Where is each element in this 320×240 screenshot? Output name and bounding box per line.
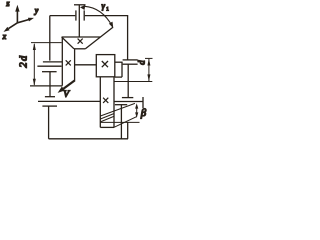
bearing B2 upper plate [123, 59, 138, 61]
support T cap bottom left [42, 105, 57, 107]
gear housing H1 right edge [74, 49, 76, 81]
bearing B4 left plate long [37, 65, 61, 67]
horizontal shaft segment right [115, 61, 123, 63]
gear housing H1 left edge [61, 37, 63, 86]
bearing B2 lower plate [123, 63, 138, 65]
rotation arc gamma1 start arrowhead [80, 5, 85, 10]
dimension 2d bottom arrow [33, 79, 36, 86]
bevel gear G1 right slant extended [85, 27, 113, 49]
axis x [4, 23, 18, 32]
bevel gear G1 bottom edge [74, 48, 85, 50]
svg-text:β: β [140, 108, 147, 119]
screw hatch line 1 extended as beta diagonal [100, 103, 134, 116]
dimension d bottom extension [114, 81, 153, 83]
shaft 1 (vertical input shaft) [78, 5, 80, 37]
dimension d line [148, 59, 150, 81]
bevel gear G1 top edge [62, 36, 101, 38]
dimension 2d top extension [31, 42, 62, 44]
bearing B1 left plate [75, 10, 77, 20]
dimension 2d line [33, 44, 35, 85]
lower shaft line left segment [38, 100, 100, 102]
bearing B4 left plate short [43, 61, 62, 63]
svg-text:d: d [136, 60, 146, 65]
bearing B3 plate [122, 97, 133, 99]
frame right edge upper [127, 16, 129, 60]
frame bottom edge [49, 138, 128, 140]
screw unit housing left edge [99, 77, 101, 128]
svg-text:γ: γ [102, 1, 106, 11]
beta reference line [101, 121, 140, 123]
gear H1 cross mark [66, 60, 71, 65]
support T leg right [120, 105, 122, 139]
gyro housing axis leg [49, 72, 51, 97]
screw unit cross mark [103, 98, 108, 103]
axis z [15, 5, 19, 23]
axis y [17, 18, 34, 23]
gear box U1 [96, 55, 115, 77]
support T cap right [115, 104, 127, 106]
rotation arc gamma1 end arrowhead [109, 22, 113, 29]
shaft 1 top cap [74, 4, 86, 6]
svg-text:y: y [34, 6, 39, 15]
dimension d bottom arrow [147, 74, 150, 81]
screw unit housing right edge [113, 77, 115, 127]
right shaft lower segment [127, 64, 129, 97]
bevel gear G1 left slant [62, 37, 74, 49]
sleeve right edge [121, 62, 123, 77]
dimension d top extension [145, 57, 153, 59]
sleeve bottom [115, 76, 122, 78]
frame right edge lower [127, 122, 129, 138]
dimension 2d top arrow [33, 43, 36, 50]
support T cap left [42, 71, 57, 73]
svg-text:V: V [63, 90, 70, 100]
frame left edge lower [48, 106, 50, 139]
bearing B1 right plate [83, 10, 85, 20]
dimension d top arrow [147, 59, 150, 66]
gear box U1 cross mark [102, 61, 108, 67]
frame top edge right part [85, 15, 128, 17]
beta diagonal lower [114, 116, 137, 127]
svg-text:2d: 2d [19, 54, 30, 67]
svg-text:1: 1 [106, 8, 109, 13]
lower shaft end plate [142, 97, 144, 108]
svg-text:x: x [2, 32, 7, 41]
screw unit housing bottom [100, 126, 114, 128]
beta double arrow [135, 103, 138, 117]
bearing B5 plate short [45, 96, 55, 98]
frame left edge upper [49, 16, 51, 61]
screw hatch line 2 [100, 114, 113, 119]
bevel gear G1 cross mark [78, 39, 83, 44]
svg-text:z: z [5, 0, 10, 8]
gimbal rod [30, 85, 62, 87]
screw hatch line 3 [100, 116, 113, 122]
rotation arc gamma1 [85, 6, 113, 26]
lower shaft line right segment [114, 101, 143, 103]
horizontal shaft segment middle [75, 64, 97, 66]
velocity arrow V [63, 80, 74, 88]
frame top edge left part [50, 15, 76, 17]
